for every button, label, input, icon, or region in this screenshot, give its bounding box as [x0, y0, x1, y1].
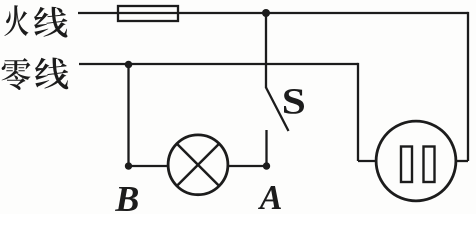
- label "lingxian" neutral-wire text: [2, 58, 69, 90]
- wire neutral drop to socket: [357, 63, 359, 161]
- node junction on neutral wire: [125, 61, 133, 69]
- label B: [115, 187, 138, 211]
- node junction on live wire: [262, 9, 270, 17]
- socket (circle with two slots): [376, 121, 456, 201]
- wire node B to lamp: [129, 165, 170, 167]
- wire switch lower terminal to node A: [265, 130, 267, 166]
- wire right-side drop (live wire to socket): [467, 12, 469, 161]
- switch S blade (open): [266, 88, 289, 132]
- wire socket left stub: [358, 160, 378, 162]
- lamp (circle with X): [168, 135, 228, 195]
- wire lamp to node A: [227, 165, 267, 167]
- label S: [284, 89, 304, 114]
- label A: [258, 186, 281, 209]
- node A: [263, 162, 270, 169]
- wire socket right stub: [455, 160, 469, 162]
- wire neutral horizontal: [79, 63, 358, 65]
- node B: [125, 162, 132, 169]
- wire branch down to node B: [127, 65, 129, 167]
- wire switch feed (from live junction, crosses neutral): [265, 13, 267, 88]
- wire live horizontal: [78, 12, 468, 14]
- label "huoxian" live-wire text: [4, 5, 67, 37]
- fuse on live wire: [118, 6, 178, 21]
